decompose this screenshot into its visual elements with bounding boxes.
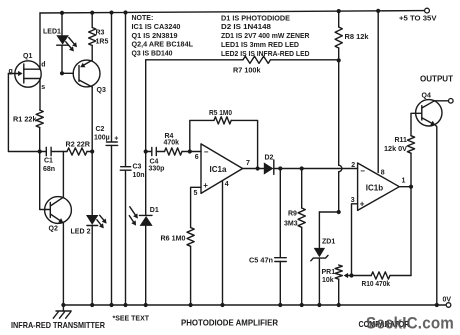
svg-text:D1: D1	[150, 207, 159, 214]
node R2/Q3c/LED2	[90, 149, 94, 153]
svg-text:Q1: Q1	[23, 53, 32, 60]
photodiode D1	[139, 214, 152, 216]
wire hop R8 over signal	[339, 165, 342, 171]
svg-text:IC1 IS CA3240: IC1 IS CA3240	[132, 24, 181, 31]
wire Q3 collector down	[91, 87, 93, 215]
svg-text:10k: 10k	[322, 277, 334, 284]
svg-text:s: s	[41, 84, 45, 91]
svg-text:R8 12k: R8 12k	[345, 34, 369, 41]
svg-text:*SEE TEXT: *SEE TEXT	[113, 314, 150, 323]
svg-text:3M3: 3M3	[284, 221, 298, 228]
ground chassis	[62, 305, 64, 311]
wire feedback up	[190, 120, 214, 151]
svg-text:R5 1M0: R5 1M0	[209, 110, 232, 117]
svg-text:1: 1	[402, 178, 406, 185]
svg-text:R11: R11	[395, 137, 408, 144]
resistor R8	[338, 11, 340, 27]
potentiometer PR1	[335, 265, 342, 279]
svg-text:2: 2	[351, 162, 355, 169]
node pin3/R10/wiper	[349, 273, 353, 277]
capacitor C3	[125, 13, 127, 167]
svg-text:Q2,4 ARE BC184L: Q2,4 ARE BC184L	[132, 42, 194, 49]
svg-text:Q3: Q3	[97, 87, 106, 94]
svg-text:R10 470k: R10 470k	[362, 281, 391, 288]
svg-text:Q3 IS BD140: Q3 IS BD140	[132, 51, 173, 58]
transistor Q3	[73, 60, 100, 87]
svg-text:R6 1M0: R6 1M0	[161, 236, 186, 243]
svg-text:1R5: 1R5	[96, 39, 109, 46]
svg-text:+: +	[203, 181, 208, 190]
svg-text:8: 8	[381, 170, 385, 177]
svg-text:5: 5	[194, 190, 198, 197]
wire IC1a output	[243, 168, 264, 170]
svg-text:−: −	[204, 148, 209, 157]
svg-text:LED1 IS 3mm RED LED: LED1 IS 3mm RED LED	[221, 42, 299, 49]
capacitor C2	[111, 13, 113, 142]
svg-text:−: −	[360, 166, 365, 175]
svg-text:470k: 470k	[164, 140, 180, 147]
svg-text:6: 6	[195, 154, 199, 161]
wire R4 to pin6	[182, 151, 201, 153]
svg-text:3: 3	[351, 197, 355, 204]
wire R10 right leg up	[410, 187, 412, 276]
wire LED1 node to Q3 base	[62, 72, 73, 74]
wire Q1 source	[39, 79, 41, 111]
svg-text:+: +	[360, 200, 365, 209]
node ZD1/R8/PR1	[337, 210, 341, 214]
svg-text:C2: C2	[96, 126, 105, 133]
capacitor C4	[146, 151, 152, 153]
node feedback/pin6	[188, 149, 192, 153]
node R1/C1/gate	[38, 149, 42, 153]
svg-text:IC1b: IC1b	[366, 184, 383, 193]
svg-text:D2: D2	[265, 155, 274, 162]
svg-text:d: d	[41, 62, 45, 69]
resistor R7	[146, 59, 243, 61]
svg-text:ZD1 IS 2V7 400 mW ZENER: ZD1 IS 2V7 400 mW ZENER	[221, 33, 310, 40]
svg-text:NOTE:: NOTE:	[132, 15, 154, 22]
op-amp IC1a	[201, 144, 243, 194]
svg-text:+5 TO 35V: +5 TO 35V	[399, 16, 437, 23]
terminal 0V	[446, 303, 451, 308]
node C5 tap	[278, 166, 282, 170]
terminal +5 TO 35V	[425, 8, 430, 13]
wire Q1 gate run	[8, 74, 39, 152]
node Q3 base	[60, 71, 64, 75]
resistor R4	[165, 148, 183, 155]
svg-text:Q1 IS 2N3819: Q1 IS 2N3819	[132, 33, 178, 40]
capacitor C1	[40, 151, 47, 153]
svg-text:LED 2: LED 2	[71, 229, 91, 236]
resistor R9	[301, 169, 303, 209]
transistor Q2	[45, 197, 72, 224]
wire Q2 collector	[62, 152, 64, 198]
svg-text:R3: R3	[96, 30, 105, 37]
svg-text:100µ: 100µ	[94, 135, 110, 142]
svg-text:C4: C4	[150, 159, 159, 166]
resistor R1	[36, 110, 43, 128]
wire Q4 collector to OUTPUT	[434, 100, 448, 102]
wire pin3 stub	[352, 204, 358, 276]
svg-text:LED1: LED1	[43, 29, 61, 36]
svg-text:+: +	[114, 135, 118, 142]
zener ZD1	[319, 211, 338, 213]
wire R6 to 0V	[190, 246, 192, 305]
svg-text:C5 47n: C5 47n	[249, 258, 273, 265]
wire IC1b output	[399, 186, 411, 188]
wire Q2 emitter to 0V	[62, 223, 64, 305]
node R9 tap	[300, 166, 304, 170]
svg-text:R9: R9	[288, 211, 297, 218]
svg-text:PR1: PR1	[322, 269, 336, 276]
svg-text:68n: 68n	[43, 166, 55, 173]
svg-text:PHOTODIODE AMPLIFIER: PHOTODIODE AMPLIFIER	[181, 319, 278, 328]
wire R7 left leg / D1 column	[145, 60, 147, 215]
svg-text:7: 7	[246, 160, 250, 167]
svg-text:D2 IS 1N4148: D2 IS 1N4148	[221, 24, 271, 31]
wire Q4 emitter to 0V	[435, 125, 436, 305]
resistor R3	[91, 13, 93, 28]
svg-text:R7 100k: R7 100k	[233, 68, 261, 75]
svg-text:12k 0V: 12k 0V	[384, 146, 407, 153]
diode D2	[264, 162, 274, 174]
wire pin5 stub	[191, 187, 201, 227]
resistor R2	[67, 148, 87, 155]
LED2	[86, 215, 98, 225]
wire pin8 supply	[377, 11, 379, 173]
svg-text:LED2 IS IS INFRA-RED LED: LED2 IS IS INFRA-RED LED	[221, 51, 310, 58]
wire Q1 drain to +V	[39, 13, 41, 69]
svg-text:R2 22R: R2 22R	[66, 142, 91, 149]
wire node to Q2 base	[40, 152, 45, 210]
wire pin4 to 0V	[222, 181, 224, 305]
node C4/D1	[144, 149, 148, 153]
svg-text:10n: 10n	[133, 172, 145, 179]
wire R2 to node	[87, 151, 92, 153]
svg-text:C3: C3	[133, 164, 142, 171]
svg-text:D1 IS PHOTODIODE: D1 IS PHOTODIODE	[221, 15, 290, 22]
svg-text:R1 22k: R1 22k	[13, 117, 37, 124]
transistor Q1	[15, 61, 41, 87]
resistor R5	[214, 117, 231, 124]
wire R1 bottom	[39, 128, 41, 152]
wire +V top rail	[40, 11, 425, 13]
svg-text:OUTPUT: OUTPUT	[420, 75, 453, 84]
svg-text:Q2: Q2	[49, 226, 58, 233]
resistor R10	[352, 275, 372, 277]
node pin1	[409, 185, 413, 189]
capacitor C5	[279, 169, 281, 258]
node output/feedback	[256, 166, 260, 170]
LED1	[61, 13, 63, 35]
op-amp IC1b	[358, 163, 400, 210]
svg-text:4: 4	[225, 181, 229, 188]
resistor R6	[187, 228, 194, 247]
svg-text:ZD1: ZD1	[322, 239, 335, 246]
svg-text:0V: 0V	[443, 297, 452, 304]
svg-text:330p: 330p	[149, 166, 165, 173]
svg-text:SeekIC.com: SeekIC.com	[366, 315, 454, 333]
wire feedback right leg	[231, 120, 257, 168]
node R7/R8	[337, 58, 341, 62]
transistor Q4	[416, 100, 442, 126]
svg-text:g: g	[9, 68, 13, 75]
svg-text:C1: C1	[44, 158, 53, 165]
svg-text:IC1a: IC1a	[210, 165, 227, 174]
resistor R11	[410, 153, 412, 187]
svg-text:INFRA-RED TRANSMITTER: INFRA-RED TRANSMITTER	[11, 320, 105, 330]
wire 0V bottom rail	[63, 304, 446, 306]
svg-text:Q4: Q4	[422, 93, 431, 100]
